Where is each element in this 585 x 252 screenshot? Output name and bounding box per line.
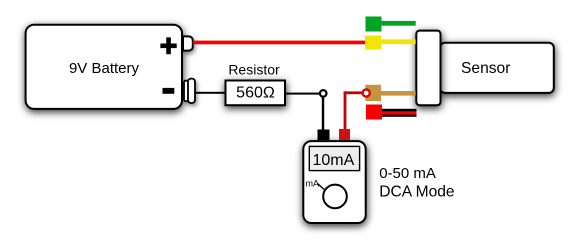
multimeter display	[309, 146, 359, 170]
svg-text:10mA: 10mA	[313, 152, 355, 169]
battery minus sign	[163, 88, 175, 94]
wire green to connector	[382, 21, 416, 26]
svg-text:DCA Mode: DCA Mode	[379, 183, 454, 200]
sensor U1 body	[440, 43, 554, 93]
battery positive terminal	[183, 36, 193, 50]
red block sensor wire crimp	[366, 105, 382, 120]
multimeter pointer line	[318, 184, 325, 190]
wire black meter probe vertical	[322, 97, 324, 129]
multimeter black probe plug	[318, 130, 330, 141]
multimeter red probe plug	[339, 129, 350, 140]
wire red meter probe	[344, 91, 363, 129]
battery negative terminal	[184, 79, 195, 103]
wire tan to connector	[381, 91, 416, 96]
resistor R1 box	[226, 81, 286, 106]
wire red from battery + to yellow block	[193, 41, 366, 45]
green block sensor wire crimp	[366, 17, 382, 32]
wire black from battery - to resistor	[195, 92, 226, 94]
wire black-red pair to connector	[382, 109, 417, 117]
svg-text:Sensor: Sensor	[461, 60, 510, 77]
yellow block sensor wire crimp	[365, 36, 381, 50]
sensor connector body	[416, 31, 440, 106]
svg-text:560Ω: 560Ω	[236, 84, 275, 101]
node red open circle	[363, 89, 370, 96]
svg-text:mA: mA	[306, 179, 320, 189]
node black open circle	[320, 90, 327, 97]
tan block sensor wire crimp	[365, 85, 381, 101]
multimeter M1 body	[303, 141, 365, 223]
wire yellow to connector	[381, 39, 416, 44]
multimeter dial	[323, 185, 347, 209]
wire from resistor to node	[285, 93, 319, 95]
battery plus sign	[160, 37, 176, 54]
battery B1 body	[26, 25, 182, 109]
svg-text:Resistor: Resistor	[228, 62, 280, 78]
svg-text:0-50 mA: 0-50 mA	[379, 165, 436, 182]
svg-text:9V Battery: 9V Battery	[69, 60, 140, 77]
